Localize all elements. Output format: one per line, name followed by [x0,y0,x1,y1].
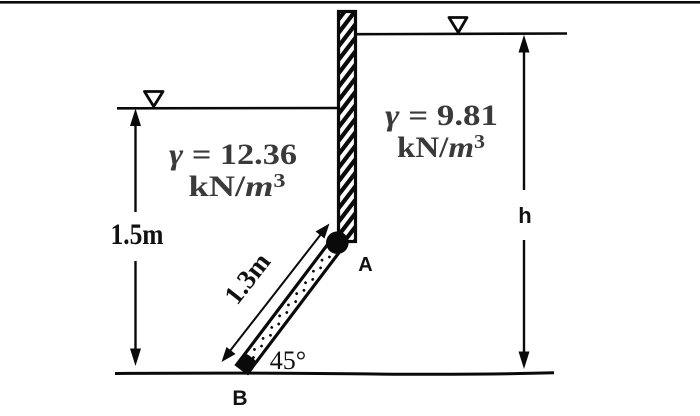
right gamma value text: gamma = 9.81 kN/m3 [385,99,498,164]
svg-text:45°: 45° [270,346,306,375]
svg-text:A: A [358,254,372,276]
dimension 1.3m: double-headed arrow parallel to gate [222,224,330,363]
right water surface line [356,32,567,35]
top border line [0,1,700,4]
svg-text:h: h [518,203,531,228]
ground line [115,373,554,374]
retaining wall (hatched) [337,0,359,265]
svg-text:γ = 12.36: γ = 12.36 [169,138,297,171]
left water surface line [117,107,338,110]
dimension 1.5m: vertical line with arrowheads and gap for label [134,123,136,352]
svg-text:1.5m: 1.5m [111,218,164,251]
svg-text:γ = 9.81: γ = 9.81 [385,99,498,132]
hinge A dot [326,231,349,254]
artifact blob on top border [122,1,134,4]
arrowhead toward B [222,347,236,362]
arrowhead toward A [316,224,330,239]
left gamma value text: gamma = 12.36 kN/m3 [169,138,297,203]
left water surface symbol (nabla) [145,92,164,107]
1.5m up arrowhead [130,109,141,127]
gate AB (inclined strut with stipple) [236,238,343,373]
1.5m down arrowhead [130,349,141,367]
svg-text:kN/m3: kN/m3 [189,170,286,203]
h up arrowhead [519,35,530,53]
right water surface symbol (nabla) [449,18,467,33]
svg-text:kN/m3: kN/m3 [397,131,485,164]
dimension h: vertical line with arrowheads and gap for label [523,50,525,354]
gate end cap at B [236,353,257,374]
svg-text:B: B [232,387,247,410]
stipple dots [245,252,332,364]
h down arrowhead [519,352,530,370]
